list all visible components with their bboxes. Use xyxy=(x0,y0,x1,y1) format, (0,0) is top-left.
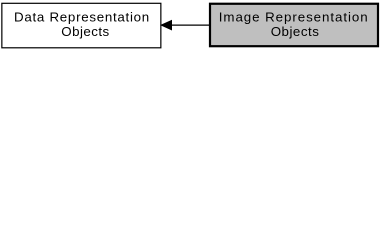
svg-text:Image Representation: Image Representation xyxy=(219,9,369,24)
node: Data Representation Objects (box) xyxy=(2,3,161,48)
edge: arrow from Image box to Data box (shaft) xyxy=(171,24,210,26)
svg-text:Objects: Objects xyxy=(271,24,320,39)
node: Image Representation Objects (highlighted box) xyxy=(210,4,378,46)
svg-text:Data Representation: Data Representation xyxy=(14,9,150,24)
edge arrowhead xyxy=(161,21,171,30)
background xyxy=(0,0,381,51)
svg-text:Objects: Objects xyxy=(61,24,109,39)
